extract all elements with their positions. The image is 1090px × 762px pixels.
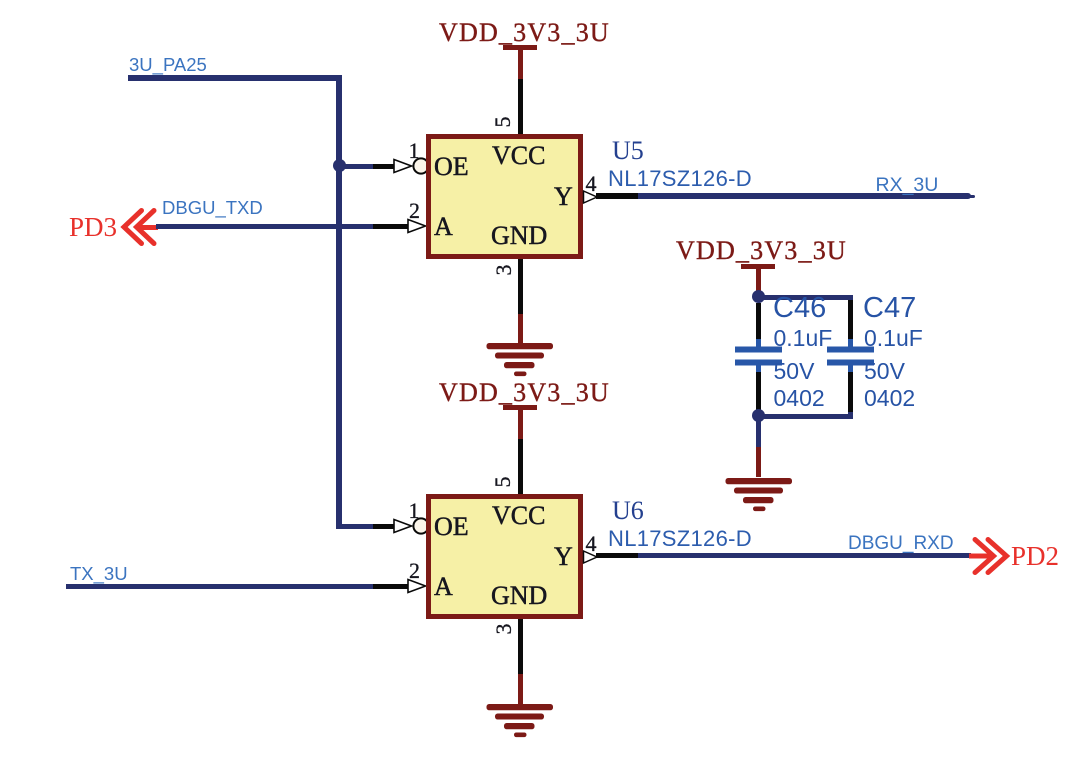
ground symbol (U6) [480,703,560,743]
U6 pin 2 stub [373,584,409,589]
net label RX_3U [876,176,939,196]
part number NL17SZ126-D (U6) [608,528,752,550]
U5 pin number 1 [409,140,420,162]
junction dot top (caps) [752,290,766,304]
U5 pin number 5 [492,117,514,128]
wire DBGU_TXD [156,224,373,229]
U5 pin 1 inversion circle [412,157,430,175]
U6 pin 5 stub [518,439,523,494]
designator U6 [612,498,644,524]
wire RX_3U [638,193,971,199]
ground symbol (caps) [719,477,799,517]
power VDD_3V3_3U label (U5) [439,20,610,46]
junction dot bottom (caps) [752,409,766,423]
U6 pin 1 stub [373,524,395,529]
U5 pin 1 input triangle [393,158,414,174]
net label DBGU_TXD [162,199,263,218]
U6 pin 4 output triangle Y [583,550,603,565]
U6 pin 3 ground stem maroon [518,674,523,704]
value 50V (C46) [774,360,815,383]
ground symbol (U5) [480,342,560,382]
wire bottom rail (caps) [758,414,853,419]
U5 pin number 2 [409,200,420,222]
U5 pin 3 stub [518,259,523,314]
net label TX_3U [70,565,128,584]
U6 pin number 2 [409,560,420,582]
junction dot at OE branch [333,159,347,173]
wire branch to U5 pin 1 [342,164,373,169]
wire 3U_PA25 vertical bus [336,75,342,529]
part number NL17SZ126-D (U5) [608,168,752,190]
wire right corner top (C47) [848,295,853,302]
U6 pin name Y [554,544,573,570]
U5 pin name GND [491,223,547,249]
U6 pin number 4 [586,533,597,555]
U5 pin 2 stub [373,224,409,229]
wire ground drop (caps) [756,416,761,447]
capacitor C46 top lead [756,303,761,340]
U5 pin name Y [554,184,573,210]
value 0402 (C46) [774,387,825,410]
U5 pin name VCC [492,143,545,169]
U6 pin 2 input triangle [407,578,428,594]
U6 pin number 3 [493,624,515,635]
capacitor C47 bottom lead [848,372,853,412]
ground stem maroon (caps) [756,447,761,477]
U5 pin 2 input triangle [407,218,428,234]
U5 pin number 3 [493,265,515,276]
U6 pin 4 stub [596,553,638,559]
value 50V (C47) [864,360,905,383]
power stem maroon (U6) [518,410,523,439]
wire TX_3U [66,584,373,589]
capacitor C47 top lead [848,300,853,340]
port PD2 chevrons [965,535,1015,580]
text PD2 [1011,543,1059,570]
U6 pin name OE [434,514,469,540]
value 0.1uF (C47) [864,327,923,350]
wire right corner bottom (C47) [848,411,853,419]
designator C47 [863,294,916,323]
U5 pin 1 stub [373,164,395,169]
U5 pin 3 ground stem maroon [518,314,523,344]
power stem maroon (U5) [518,50,523,79]
port PD3 chevrons [118,205,163,250]
U5 pin 5 stub [518,79,523,134]
IC U6 body [426,494,583,619]
value 0.1uF (C46) [774,327,833,350]
capacitor C47 [825,339,877,373]
wire top rail (caps) [758,295,853,300]
net label DBGU_RXD [848,534,954,553]
U6 pin 1 inversion circle [412,517,430,535]
U6 pin name VCC [492,503,545,529]
value 0402 (C47) [864,387,915,410]
capacitor C46 [733,339,785,373]
U5 pin number 4 [586,173,597,195]
power bar (U5) [503,45,537,50]
U6 pin number 1 [409,500,420,522]
U5 pin 4 stub [596,193,638,199]
U6 pin 3 stub [518,619,523,674]
text PD3 [69,214,117,241]
wire DBGU_RXD [638,553,971,559]
net label 3U_PA25 [129,56,207,75]
capacitor C46 bottom lead [756,372,761,411]
power VDD_3V3_3U label (U6) [439,380,610,406]
power stem maroon (caps) [756,269,761,294]
U6 pin 1 input triangle [393,518,414,534]
wire elbow to U6 pin 1 [336,524,373,529]
U6 pin name A [434,574,453,600]
U5 pin 4 output triangle Y [583,190,603,205]
U6 pin number 5 [492,477,514,488]
IC U5 body [426,134,583,259]
power bar (caps) [741,264,775,269]
designator U5 [612,138,644,164]
wire 3U_PA25 horizontal [128,75,342,81]
designator C46 [773,294,826,323]
power VDD_3V3_3U label (caps) [676,238,847,264]
U6 pin name GND [491,583,547,609]
U5 pin name A [434,214,453,240]
U5 pin name OE [434,154,469,180]
power bar (U6) [503,405,537,410]
